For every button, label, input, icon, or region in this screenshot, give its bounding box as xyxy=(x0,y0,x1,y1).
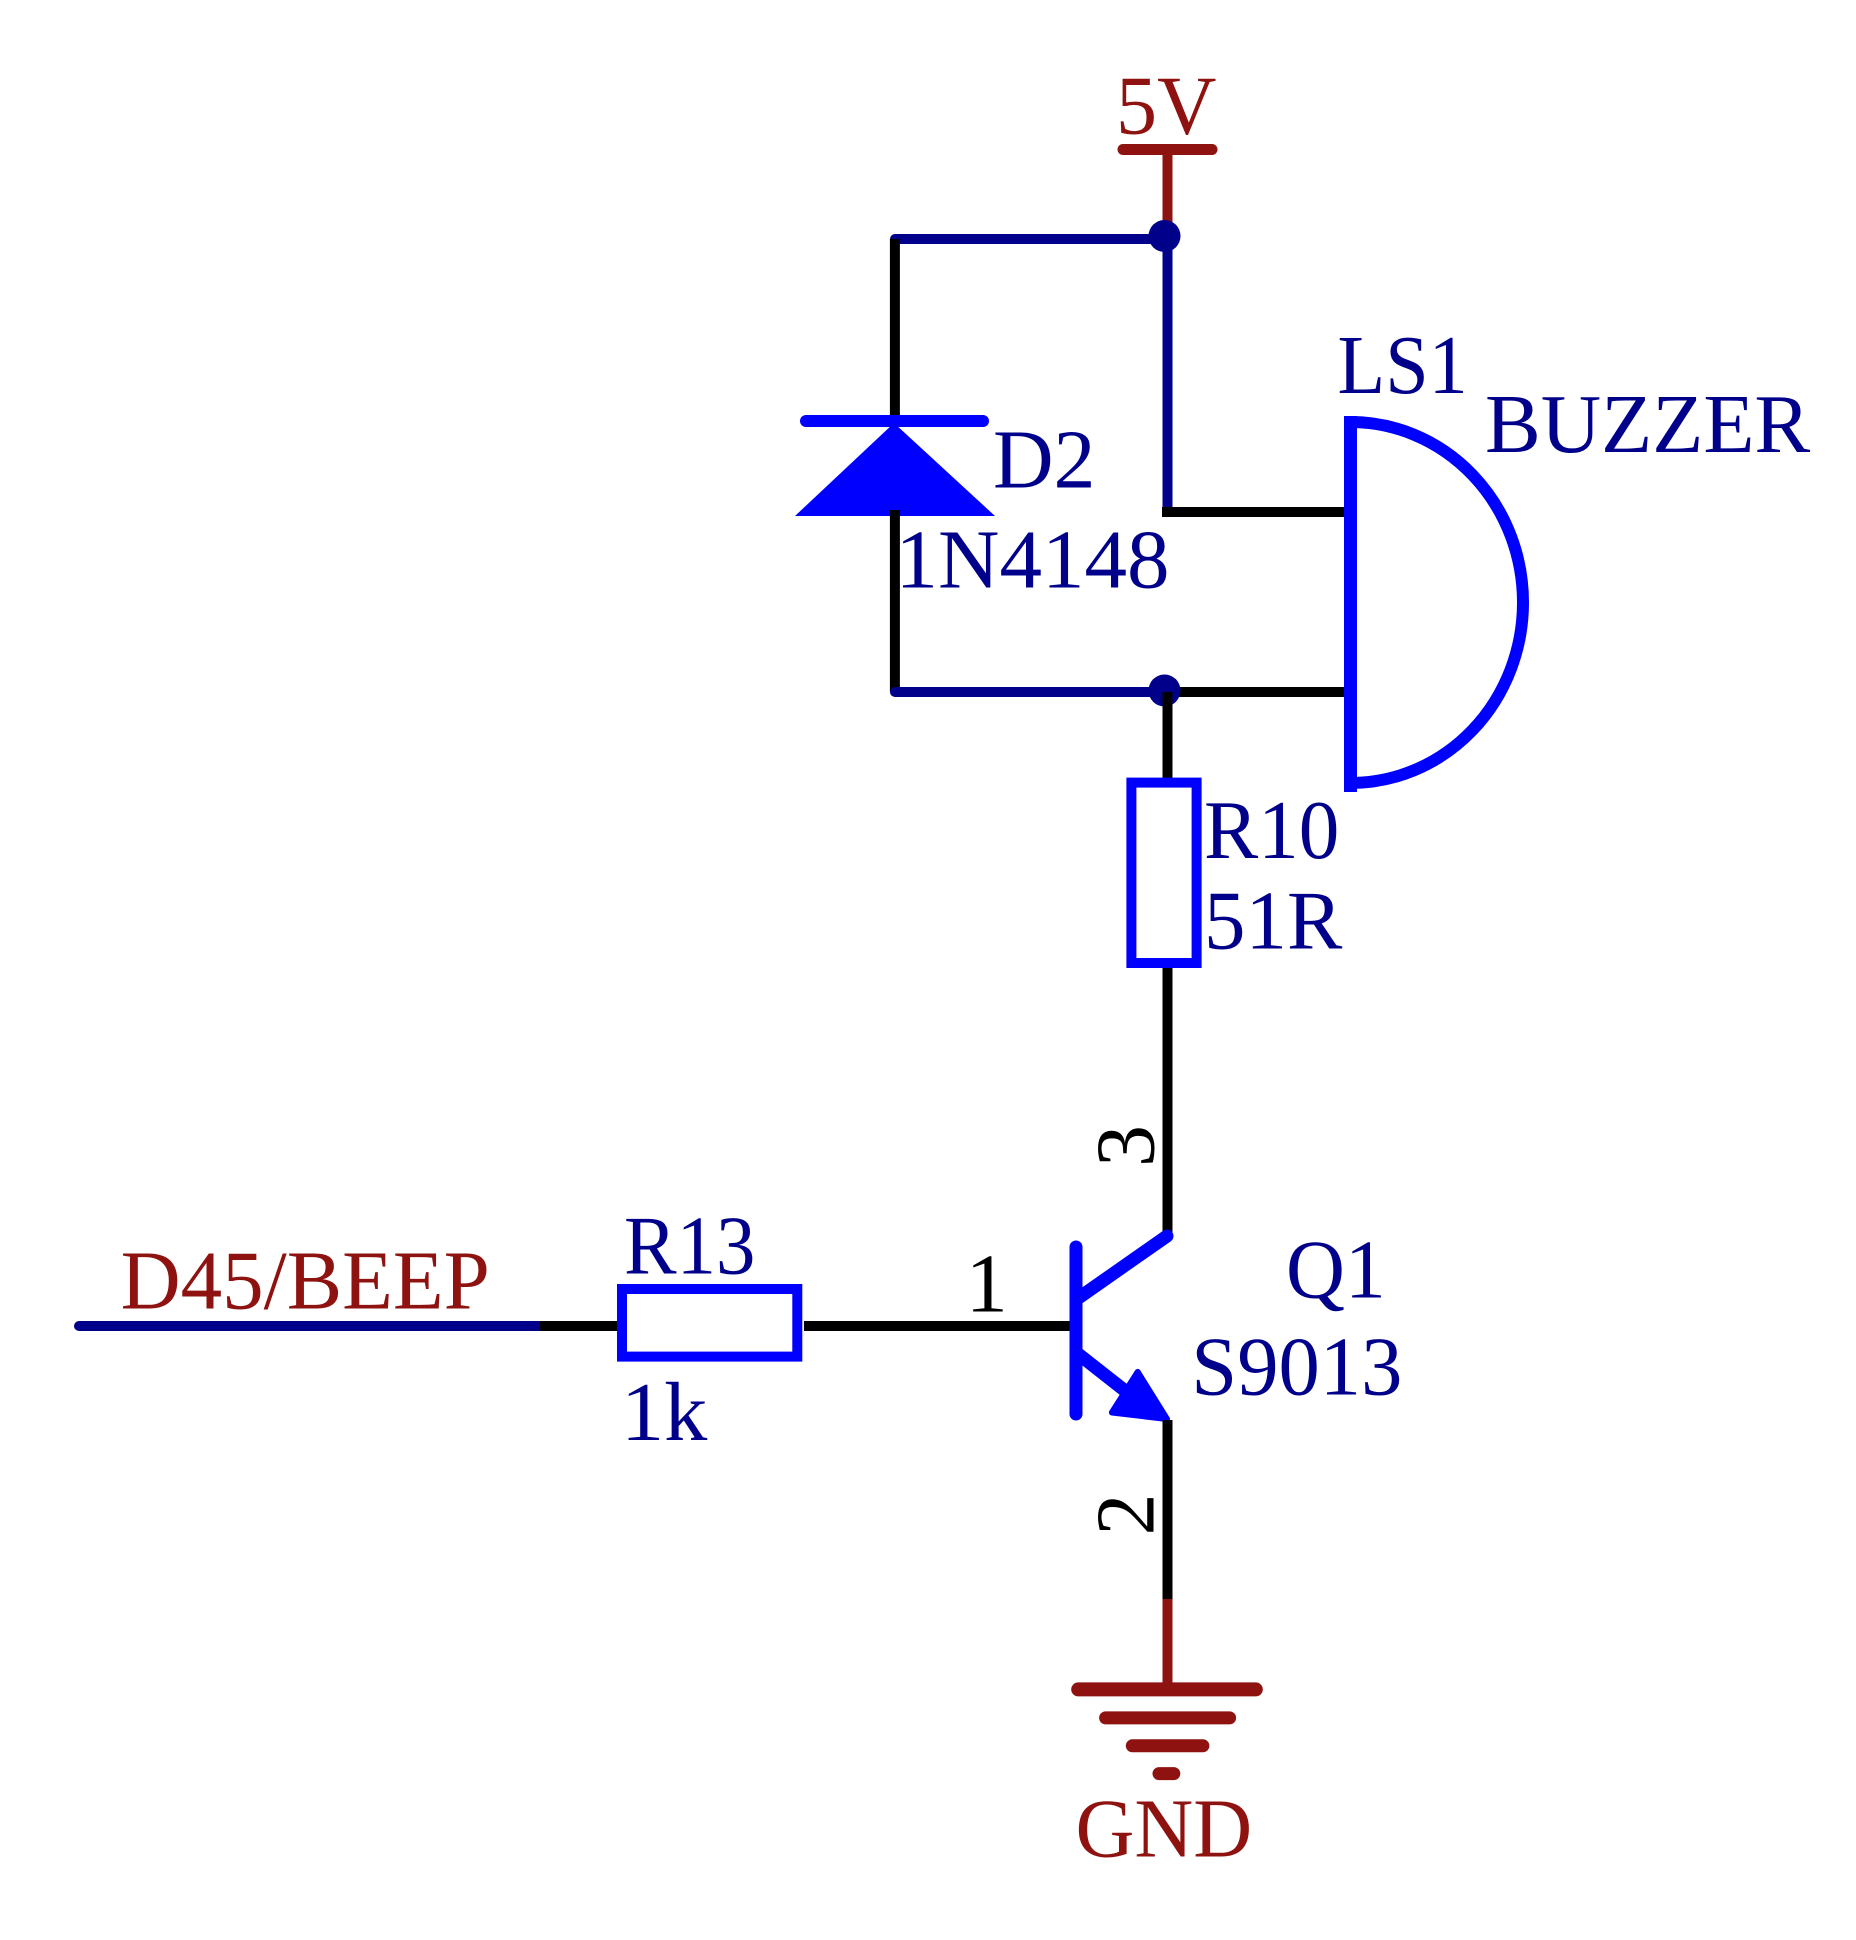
svg-text:LS1: LS1 xyxy=(1338,319,1468,412)
node junction bottom (buzzer/R10) xyxy=(1149,675,1181,707)
ground bar 3 xyxy=(1132,1739,1203,1752)
svg-text:1: 1 xyxy=(966,1238,1008,1331)
wire black left vertical lower (anode branch) xyxy=(890,510,900,692)
svg-text:3: 3 xyxy=(1080,1125,1173,1167)
diode D2 triangle (anode, pointing up) xyxy=(795,423,995,516)
supply 5V stem xyxy=(1163,150,1173,228)
transistor Q1 emitter arrowhead xyxy=(1112,1372,1167,1419)
svg-text:1k: 1k xyxy=(621,1366,707,1459)
transistor Q1 base bar xyxy=(1070,1247,1083,1414)
wire black to buzzer top pin xyxy=(1162,507,1349,517)
svg-text:S9013: S9013 xyxy=(1191,1321,1402,1414)
wire navy vertical to buzzer top pin xyxy=(1163,236,1173,507)
svg-text:R13: R13 xyxy=(624,1200,755,1293)
buzzer LS1 flat bar xyxy=(1344,416,1357,792)
wire black to buzzer bottom pin xyxy=(1164,687,1349,697)
wire black left vertical upper (cathode branch) xyxy=(890,239,900,420)
svg-text:2: 2 xyxy=(1080,1494,1173,1536)
buzzer LS1 dome arc xyxy=(1351,422,1524,783)
resistor R10 body xyxy=(1131,783,1196,963)
wire bottom navy horizontal xyxy=(895,687,1164,697)
wire black emitter to GND xyxy=(1163,1420,1173,1601)
ground bar 1 xyxy=(1078,1682,1256,1696)
svg-text:Q1: Q1 xyxy=(1286,1224,1386,1317)
svg-text:51R: 51R xyxy=(1204,874,1342,967)
wire black R13 to base xyxy=(804,1321,1070,1331)
svg-text:GND: GND xyxy=(1076,1782,1253,1875)
transistor Q1 emitter stroke xyxy=(1077,1353,1133,1397)
wire black to R13 left xyxy=(540,1321,620,1331)
node junction top (5V net) xyxy=(1149,220,1181,252)
svg-text:1N4148: 1N4148 xyxy=(896,514,1170,607)
wire D45/BEEP navy xyxy=(79,1321,541,1331)
ground bar 2 xyxy=(1106,1711,1230,1724)
wire black R10 to Q1 collector xyxy=(1163,968,1173,1239)
svg-text:5V: 5V xyxy=(1116,60,1216,153)
wire top navy horizontal xyxy=(895,234,1164,244)
wire black junction to R10 xyxy=(1163,692,1173,782)
svg-text:D2: D2 xyxy=(993,414,1096,507)
resistor R13 body xyxy=(622,1289,797,1357)
ground stem xyxy=(1163,1599,1173,1689)
svg-text:D45/BEEP: D45/BEEP xyxy=(121,1235,490,1328)
svg-text:R10: R10 xyxy=(1204,784,1339,877)
supply 5V bar xyxy=(1123,144,1212,155)
transistor Q1 collector stroke xyxy=(1077,1236,1167,1299)
diode D2 cathode bar xyxy=(806,415,983,427)
ground bar 4 xyxy=(1159,1767,1174,1780)
svg-text:BUZZER: BUZZER xyxy=(1485,378,1810,471)
